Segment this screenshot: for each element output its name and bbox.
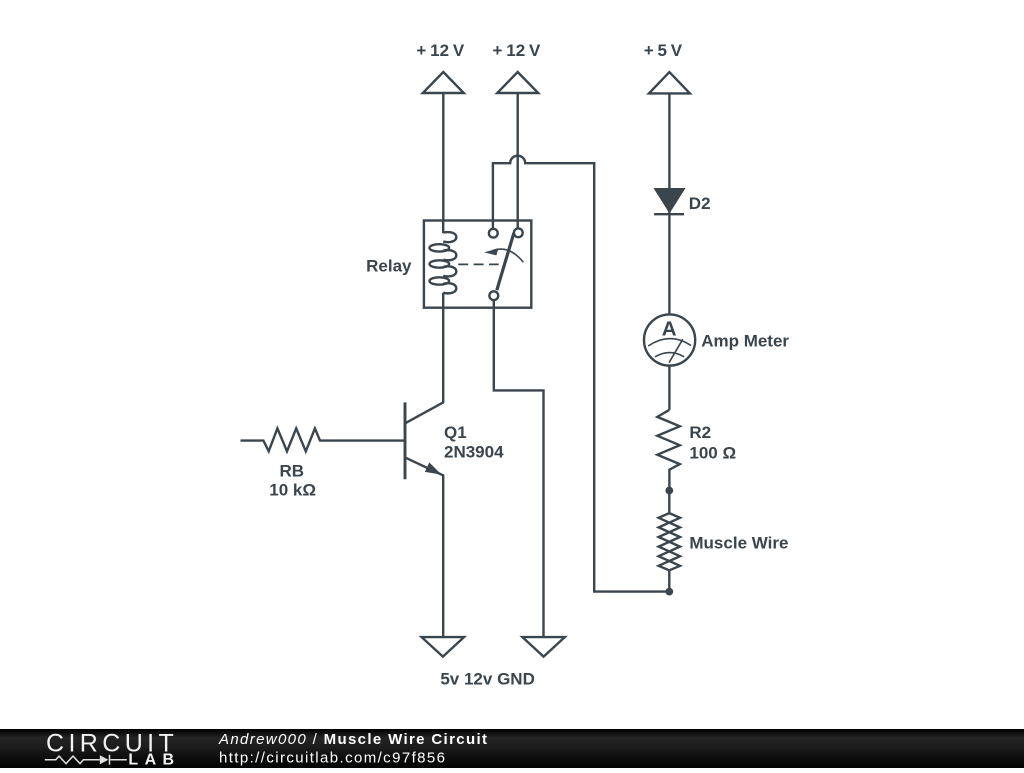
diode D2 cathode bar (654, 213, 684, 215)
relay K1 pin circle top-right (514, 228, 523, 237)
ammeter M1 circle (644, 314, 695, 365)
svg-text:LAB: LAB (128, 752, 180, 769)
footer logo schematic squiggle (45, 755, 127, 765)
muscle wire MW zigzag A (659, 513, 680, 570)
muscle wire MW zigzag B (659, 513, 680, 570)
wire junction to muscle wire (668, 491, 670, 514)
svg-text:D2: D2 (689, 194, 711, 213)
svg-text:Relay: Relay (366, 257, 412, 276)
svg-text:R2: R2 (689, 423, 711, 442)
relay K1 coil left loops (430, 244, 450, 251)
ground GND1 symbol (422, 637, 464, 657)
resistor RB body (241, 428, 405, 451)
relay K1 box (424, 221, 531, 308)
wire node switch-common with hop over V2 wire (493, 156, 666, 592)
relay K1 coil bottom lead through collector wire (406, 293, 443, 423)
svg-text:+ 12 V: + 12 V (492, 41, 540, 60)
relay K1 arrowhead (484, 248, 498, 255)
svg-text:http://circuitlab.com/c97f856: http://circuitlab.com/c97f856 (219, 749, 446, 766)
svg-text:+ 5 V: + 5 V (644, 41, 683, 60)
relay K1 switch blade (497, 233, 514, 290)
svg-text:10 kΩ: 10 kΩ (269, 480, 316, 499)
wire muscle bottom lead (668, 570, 670, 591)
wire diode to ammeter (668, 211, 670, 314)
relay K1 pin circle bottom (489, 291, 498, 300)
svg-text:100 Ω: 100 Ω (689, 443, 736, 462)
svg-text:Amp Meter: Amp Meter (701, 332, 789, 351)
power +5V V3 symbol (649, 72, 690, 189)
wire ammeter to R2 (668, 366, 670, 410)
resistor R2 body (657, 410, 680, 491)
power +12V V1 symbol (423, 72, 464, 221)
svg-text:2N3904: 2N3904 (444, 443, 504, 462)
transistor Q1 emitter arrow (425, 462, 442, 474)
diode D2 triangle (656, 189, 684, 211)
relay K1 pin circle top-left (489, 229, 498, 238)
junction node dot R2/muscle (665, 487, 673, 495)
junction node dot bottom (665, 588, 673, 596)
power +12V V2 symbol (497, 72, 538, 228)
relay K1 arrow arc (493, 249, 524, 262)
svg-text:Andrew000 / Muscle Wire Circui: Andrew000 / Muscle Wire Circuit (218, 731, 488, 748)
relay K1 coil wire top lead (442, 221, 444, 234)
svg-text:Q1: Q1 (444, 423, 467, 442)
ammeter M1 needle (669, 339, 683, 363)
svg-text:5v 12v GND: 5v 12v GND (440, 670, 535, 689)
relay K1 dashed actuation line (458, 263, 499, 265)
ground GND2 symbol (522, 637, 564, 657)
ammeter M1 scale arc 2 (655, 353, 684, 357)
ammeter M1 scale arc 1 (648, 339, 691, 346)
transistor Q1 emitter diagonal (406, 458, 443, 637)
svg-text:Muscle Wire: Muscle Wire (689, 533, 788, 552)
svg-text:RB: RB (280, 461, 305, 480)
wire relay bottom pin to ground2 (494, 300, 544, 637)
svg-text:A: A (662, 317, 677, 340)
relay K1 coil arcs (443, 232, 456, 293)
footer logo diode triangle (100, 755, 109, 764)
footer bar (0, 729, 1024, 768)
transistor Q1 base bar (404, 402, 407, 479)
svg-text:+ 12 V: + 12 V (416, 41, 464, 60)
